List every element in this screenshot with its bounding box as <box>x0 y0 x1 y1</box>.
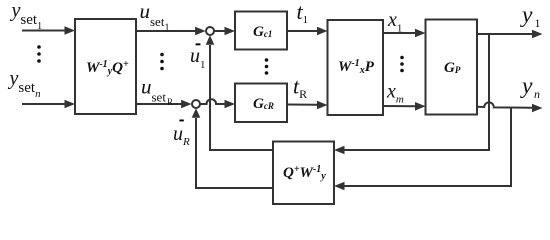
wire yset1 input <box>22 30 66 32</box>
wire S1 to Gc1 <box>215 30 227 32</box>
wire x1 <box>383 32 417 34</box>
wire S2 to GcR with hop over feedback vertical <box>200 99 226 104</box>
vdots between yset labels <box>37 45 41 49</box>
plant block Gp <box>426 20 478 115</box>
svg-text:Q+W-1y: Q+W-1y <box>283 164 326 182</box>
arrowhead into feedback block upper <box>334 146 345 155</box>
svg-text:usetR: usetR <box>141 75 173 108</box>
svg-text:tR: tR <box>293 74 307 102</box>
feedback wire block to S2 vertical <box>196 118 273 188</box>
svg-text:W-1xP: W-1xP <box>338 58 375 76</box>
svg-text:GcR: GcR <box>253 96 274 112</box>
wire ysetn input <box>22 103 66 105</box>
wire y1 output <box>477 33 533 35</box>
svg-text:yn: yn <box>520 73 540 101</box>
wire uset1 to S1 <box>136 30 197 32</box>
wire yn output with hop over y1 feedback vertical <box>477 102 533 107</box>
svg-text:y1: y1 <box>520 2 540 30</box>
arrowhead tR into W-1xP <box>317 101 328 110</box>
arrowhead y1 output <box>532 30 543 39</box>
feedback tap vertical from y1 <box>343 34 489 150</box>
wire xm <box>383 105 417 107</box>
wire t1 <box>287 30 317 32</box>
arrowhead into U1 bottom <box>65 100 76 109</box>
minus sign at S1 <box>196 43 201 45</box>
arrowhead into GcR <box>225 100 236 109</box>
vdots between Gc1 and GcR <box>265 58 269 62</box>
svg-text:Gc1: Gc1 <box>253 24 272 40</box>
wire usetR to S2 <box>136 103 183 105</box>
arrowhead xm into Gp <box>415 102 426 111</box>
svg-text:t1: t1 <box>297 0 309 26</box>
svg-text:uset1: uset1 <box>140 0 170 34</box>
controller block GcR <box>235 84 287 123</box>
svg-text:uR: uR <box>173 123 190 148</box>
vdots between x1 and xm <box>400 56 404 60</box>
feedback tap vertical from yn <box>343 108 511 186</box>
controller block Gc1 <box>235 12 287 50</box>
vdots between uset labels <box>160 53 164 57</box>
arrowhead into feedback block lower <box>334 182 345 191</box>
arrowhead up into S2 <box>192 108 201 118</box>
svg-text:GP: GP <box>444 60 461 76</box>
arrowhead t1 into W-1xP <box>317 27 328 36</box>
arrowhead into U1 top <box>65 26 76 35</box>
summing junction S1 <box>206 27 214 35</box>
arrowhead x1 into Gp <box>415 29 426 38</box>
svg-text:yset1: yset1 <box>10 0 43 32</box>
wire tR <box>287 104 317 106</box>
svg-text:u1: u1 <box>190 45 206 71</box>
svg-text:W-1yQ+: W-1yQ+ <box>86 59 129 77</box>
feedback block Q+W-1y <box>273 142 334 205</box>
minus sign at S2 <box>179 120 183 122</box>
arrowhead into S1 <box>195 27 206 36</box>
block W-1xP <box>328 20 384 115</box>
block W-1yQ+ U1 <box>75 19 136 114</box>
arrowhead up into S1 <box>206 35 215 45</box>
arrowhead yn output <box>532 104 543 113</box>
summing junction S2 <box>192 100 200 108</box>
svg-text:ysetn: ysetn <box>8 68 42 101</box>
feedback wire block to S1 vertical <box>210 45 273 150</box>
arrowhead into Gc1 <box>225 27 236 36</box>
svg-text:x1: x1 <box>387 9 402 35</box>
arrowhead into S2 <box>181 100 192 109</box>
svg-text:xm: xm <box>386 81 404 106</box>
